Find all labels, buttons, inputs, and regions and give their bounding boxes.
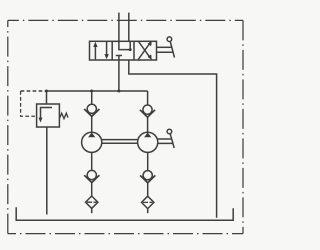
valve U1 right position: crossed flow arrows xyxy=(138,41,152,60)
junction dot: valve port on manifold xyxy=(117,90,120,93)
pump P1 outlet triangle xyxy=(88,132,95,137)
RV1 pilot line (dashed) xyxy=(21,91,37,116)
filter F1 (diamond with dashed element) xyxy=(86,196,98,208)
wire: P1 suction down to check valve CV3 xyxy=(91,152,93,171)
wire: F1 suction stub into tank xyxy=(91,208,93,213)
check valve CV1 (ball) xyxy=(87,104,96,113)
check valve CV4 seat xyxy=(140,175,155,182)
check valve CV3 seat xyxy=(84,175,99,182)
check valve CV2 (ball) xyxy=(143,105,152,114)
valve U1 centre position: A-to-B path with junction dot, blocked bottom port (T) xyxy=(116,41,132,60)
wire: manifold corner down to right check valve CV2 xyxy=(147,91,149,105)
wire: F2 suction stub into tank xyxy=(147,209,149,214)
enclosure boundary (dash-dot rectangle) xyxy=(8,20,243,233)
junction dot: left check valve tee xyxy=(90,90,93,93)
pressure relief valve RV1 body xyxy=(37,104,60,127)
pump P2 circle xyxy=(138,132,158,152)
wire: port A line (valve top-left to above enclosure) xyxy=(118,13,120,42)
wire: CV3 to filter F1 xyxy=(91,183,93,196)
tank T1 (open reservoir) xyxy=(16,207,233,220)
pump P2 lever actuator xyxy=(158,129,175,148)
junction dot: relief valve tee xyxy=(45,90,48,93)
check valve CV1 seat xyxy=(84,109,99,116)
pump P1 circle xyxy=(82,132,102,152)
wire: valve bottom-left port down to pressure manifold line xyxy=(118,60,120,91)
wire: CV2 to pump P2 xyxy=(147,117,149,132)
valve U1 left position: parallel flow arrows xyxy=(93,42,109,60)
check valve CV4 (ball) xyxy=(143,171,152,180)
valve U1 manual lever actuator xyxy=(157,37,175,58)
pump P2 outlet triangle xyxy=(144,132,151,137)
check valve CV3 (ball) xyxy=(87,170,96,179)
RV1 spring xyxy=(59,113,68,118)
wire: valve bottom-right port to tank return line xyxy=(129,60,217,218)
wire: RV1 drain to tank xyxy=(46,127,48,215)
wire: manifold down to left check valve CV1 xyxy=(91,91,93,104)
wire: manifold to RV1 top port xyxy=(46,91,48,104)
directional control valve U1 body (3-position, lever operated) xyxy=(90,41,157,60)
wire: pressure manifold line xyxy=(47,90,148,92)
wire: CV1 to pump P1 xyxy=(91,116,93,132)
wire: P2 suction down to check valve CV4 xyxy=(147,152,149,171)
wire: dashed extension of manifold to pilot takeoff xyxy=(21,90,47,92)
RV1 internal flow arrow xyxy=(39,108,53,123)
wire: CV4 to filter F2 xyxy=(147,183,149,196)
wire: port B line (valve top-right to above enclosure) xyxy=(128,13,130,42)
shaft between P1 and P2 (double line) xyxy=(102,139,138,141)
filter F2 (diamond with dashed element) xyxy=(142,196,154,208)
check valve CV2 seat xyxy=(140,110,155,117)
